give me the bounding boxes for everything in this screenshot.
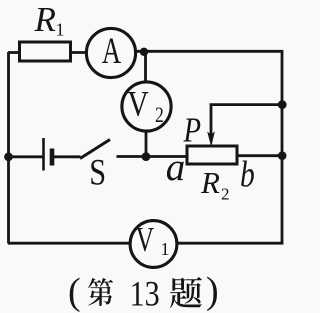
svg-text:1: 1 [161, 239, 170, 259]
svg-text:): ) [206, 270, 219, 312]
wire battery to switch pivot [54, 155, 81, 158]
wire top-left to R1 [8, 51, 20, 54]
svg-text:A: A [102, 30, 122, 71]
junction dot mid (V2 stem meets middle wire) [142, 152, 151, 161]
wire middle left to battery [8, 155, 43, 158]
svg-text:V: V [127, 85, 149, 124]
battery short plate [50, 149, 55, 166]
rheostat R2 box [187, 146, 237, 164]
wire V2 stem bottom [145, 131, 148, 158]
voltmeter V1 [130, 221, 177, 268]
svg-text:1: 1 [56, 20, 65, 40]
wiper arrow head P [207, 132, 215, 148]
svg-text:V: V [136, 220, 154, 259]
resistor R1 [20, 42, 71, 61]
junction dot top [140, 48, 148, 56]
wire switch contact to rheostat [117, 155, 188, 158]
svg-text:2: 2 [221, 185, 230, 204]
svg-text:(: ( [68, 271, 81, 313]
svg-text:13: 13 [130, 274, 160, 313]
voltmeter V2 [122, 82, 171, 131]
wire R1 to ammeter [70, 51, 87, 54]
wire bottom [8, 242, 283, 245]
caption char 题 [170, 277, 202, 308]
svg-text:R: R [34, 0, 56, 39]
caption char 第 [88, 278, 113, 306]
wire ammeter to top-right corner [135, 50, 283, 53]
wire left vertical [7, 52, 10, 244]
svg-text:S: S [89, 153, 106, 193]
junction dot right wiper [278, 100, 287, 109]
junction dot left-middle [4, 152, 13, 161]
junction dot right b [278, 151, 287, 160]
svg-text:P: P [183, 110, 201, 149]
switch S blade [80, 140, 110, 159]
svg-text:2: 2 [155, 103, 164, 127]
wire V2 stem top [144, 52, 147, 83]
ammeter A [86, 28, 135, 77]
svg-text:b: b [240, 155, 255, 196]
wire rheostat b to right [237, 154, 283, 157]
svg-text:a: a [166, 146, 186, 189]
wire right vertical [281, 51, 284, 243]
svg-text:R: R [200, 165, 220, 200]
battery long plate [42, 138, 45, 171]
wire wiper up and right [211, 105, 283, 140]
